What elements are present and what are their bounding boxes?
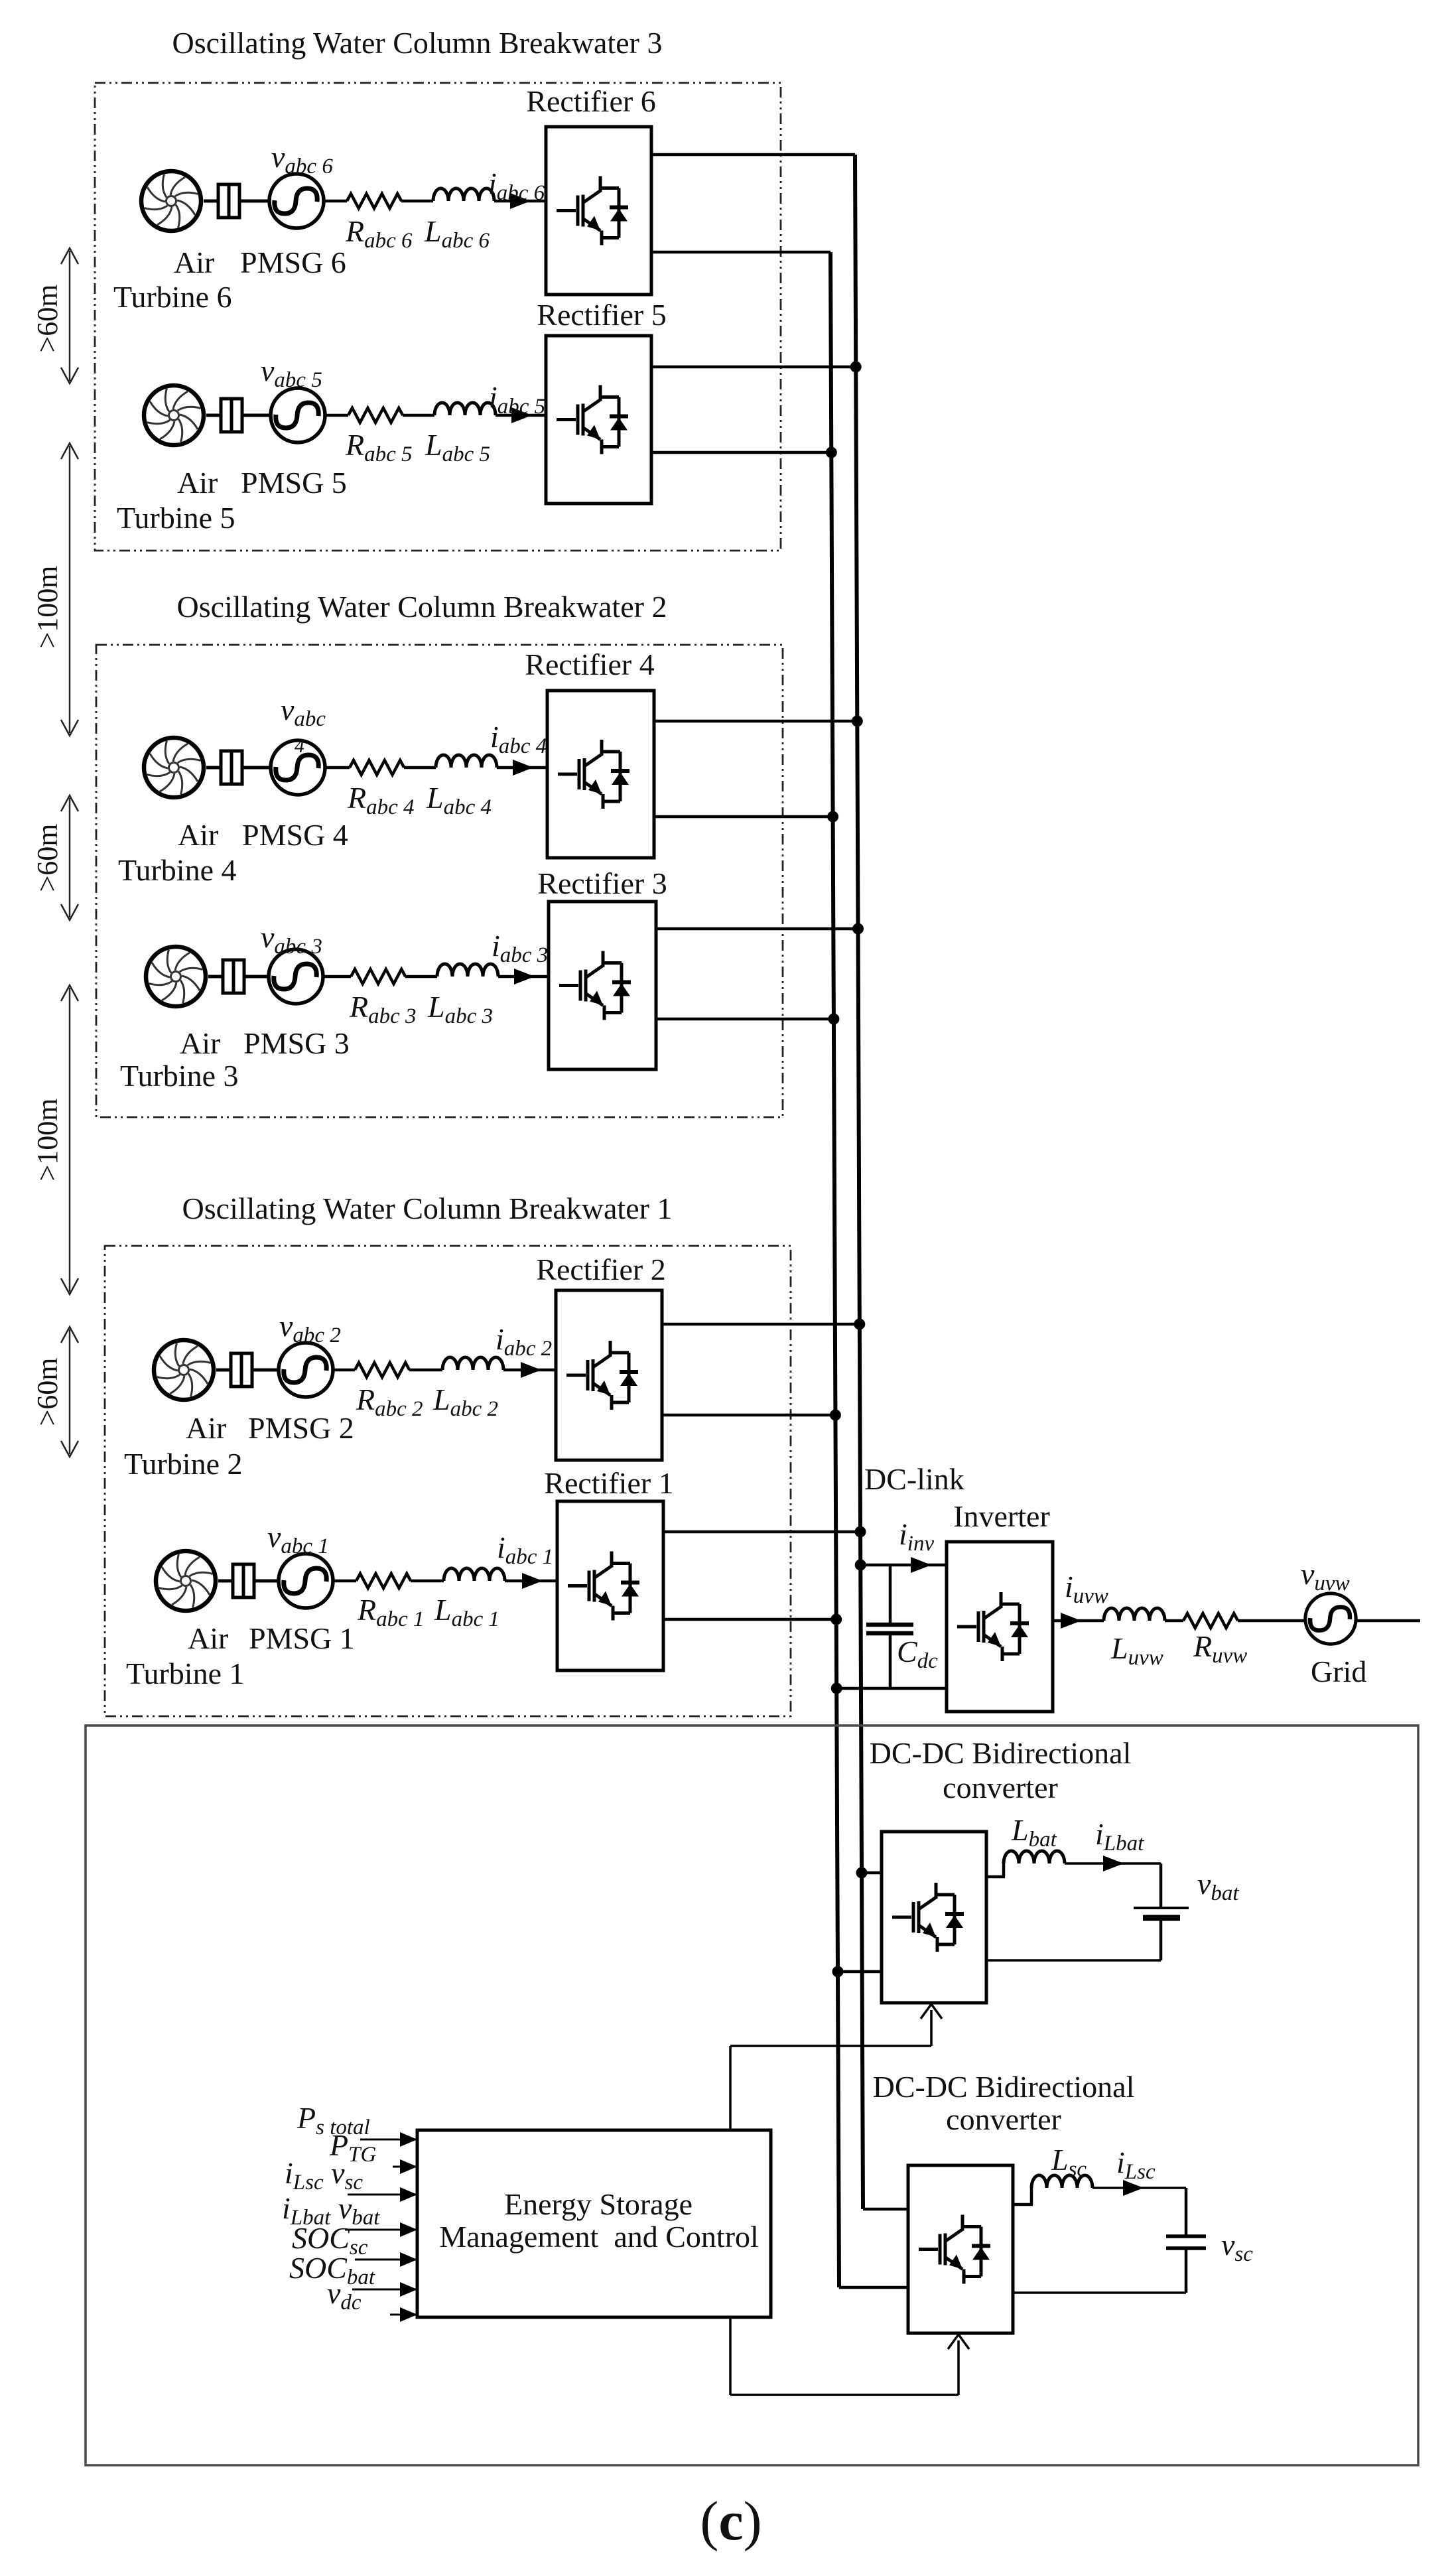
shaft coupling 3 xyxy=(208,960,267,993)
label Rectifier 1 xyxy=(544,1466,673,1500)
svg-text:Energy Storage: Energy Storage xyxy=(504,2187,693,2221)
svg-text:DC-link: DC-link xyxy=(864,1462,964,1496)
Rectifier 5 box xyxy=(546,336,651,504)
label i_abc 3 xyxy=(492,929,548,967)
svg-text:Air: Air xyxy=(177,466,218,500)
IGBT symbol in SC converter xyxy=(919,2215,990,2284)
svg-text:PMSG 4: PMSG 4 xyxy=(242,818,348,852)
air turbine 4 xyxy=(144,738,204,797)
label v_abc 4 xyxy=(281,693,326,757)
PMSG 5 generator xyxy=(271,388,325,442)
label L_bat xyxy=(1011,1813,1057,1852)
inductor L_abc 1 xyxy=(444,1568,505,1581)
label i_abc 4 xyxy=(490,720,547,758)
svg-text:Oscillating Water Column Break: Oscillating Water Column Breakwater 2 xyxy=(177,590,667,624)
Rectifier 4 positive output wire xyxy=(654,720,857,723)
PMSG 2 generator xyxy=(279,1343,333,1397)
Energy Storage Management and Control box xyxy=(417,2130,771,2317)
wire resistor to grid source xyxy=(1238,1619,1305,1623)
distance arrow >100m (lower) xyxy=(31,985,78,1294)
svg-text:Turbine 1: Turbine 1 xyxy=(126,1657,245,1690)
inductor L_uvw xyxy=(1104,1608,1165,1621)
label i_uvw xyxy=(1065,1570,1108,1608)
battery converter positive input wire xyxy=(862,1871,882,1875)
svg-text:Turbine 4: Turbine 4 xyxy=(118,853,237,887)
IGBT symbol in Inverter xyxy=(957,1592,1029,1661)
label Rectifier 3 xyxy=(537,866,667,900)
resistor R_abc 3 xyxy=(351,969,405,984)
label v_bat xyxy=(1197,1867,1239,1905)
distance arrow >60m (middle) xyxy=(31,795,78,920)
label Air Turbine 3 xyxy=(120,1026,239,1093)
wire PMSG to resistor 3 xyxy=(323,975,351,979)
label L_abc 6 xyxy=(424,214,490,253)
inductor L_abc 4 xyxy=(436,755,497,768)
svg-text:Rectifier 5: Rectifier 5 xyxy=(537,298,666,332)
IGBT symbol in battery converter xyxy=(892,1883,964,1952)
control input i_Lsc v_sc xyxy=(285,2156,417,2202)
dashed enclosure: Oscillating Water Column Breakwater 1 xyxy=(105,1246,791,1716)
IGBT symbol in Rectifier 1 xyxy=(568,1552,639,1621)
label R_abc 1 xyxy=(357,1593,425,1631)
DC-link capacitor C_dc xyxy=(866,1565,913,1688)
svg-text:Turbine 6: Turbine 6 xyxy=(113,280,232,314)
air turbine 1 xyxy=(156,1551,216,1611)
air turbine 6 xyxy=(141,171,201,231)
wire with current arrow into rectifier 5 xyxy=(496,407,546,423)
energy storage system enclosure box xyxy=(86,1726,1418,2465)
label Rectifier 2 xyxy=(536,1252,665,1286)
svg-text:PMSG 2: PMSG 2 xyxy=(248,1411,354,1445)
supercapacitor DC-DC converter box xyxy=(908,2165,1013,2333)
wire with current arrow into rectifier 6 xyxy=(494,193,546,209)
junction dot rectifier 5 negative xyxy=(826,447,837,458)
battery DC-DC converter box xyxy=(882,1832,986,2003)
Rectifier 2 positive output wire xyxy=(662,1323,860,1326)
svg-text:PMSG 1: PMSG 1 xyxy=(249,1621,355,1655)
label L_abc 2 xyxy=(432,1383,498,1421)
control input P_TG xyxy=(329,2128,417,2174)
label Rectifier 4 xyxy=(525,647,654,681)
junction dot rectifier 3 positive xyxy=(852,923,864,935)
svg-text:>60m: >60m xyxy=(31,1357,64,1426)
svg-text:Oscillating Water Column Break: Oscillating Water Column Breakwater 3 xyxy=(172,26,663,60)
Rectifier 4 negative output wire xyxy=(654,815,833,819)
battery converter negative input wire xyxy=(838,1970,882,1974)
control signal into SC converter xyxy=(730,2317,969,2395)
dashed enclosure: Oscillating Water Column Breakwater 2 xyxy=(96,645,783,1117)
svg-text:Turbine 3: Turbine 3 xyxy=(120,1059,239,1093)
grid AC source circle xyxy=(1305,1593,1356,1644)
junction dot rectifier 1 positive xyxy=(855,1526,866,1538)
label PMSG 1 xyxy=(249,1621,355,1655)
svg-text:>60m: >60m xyxy=(31,284,64,352)
wire resistor to inductor 5 xyxy=(403,414,434,417)
inductor L_abc 5 xyxy=(434,403,496,415)
shaft coupling 6 xyxy=(204,184,268,218)
distance arrow >60m (bottom) xyxy=(31,1327,78,1457)
svg-text:Air: Air xyxy=(186,1411,226,1445)
label v_abc 1 xyxy=(267,1520,329,1558)
inductor L_bat xyxy=(1004,1851,1065,1863)
inverter output wire with i_uvw arrow xyxy=(1053,1613,1104,1629)
label v_sc xyxy=(1221,2228,1253,2266)
svg-text:>60m: >60m xyxy=(31,823,64,892)
PMSG 6 generator xyxy=(269,174,324,228)
label L_abc 1 xyxy=(434,1593,499,1631)
svg-text:Rectifier 1: Rectifier 1 xyxy=(544,1466,673,1500)
inductor L_abc 6 xyxy=(433,188,494,201)
label Rectifier 6 xyxy=(526,84,655,118)
label v_uvw xyxy=(1301,1557,1350,1595)
label v_abc 2 xyxy=(279,1309,341,1347)
Rectifier 3 box xyxy=(549,902,656,1069)
wire resistor to inductor 3 xyxy=(405,975,437,979)
junction dot battery converter positive input xyxy=(856,1867,868,1879)
IGBT symbol in Rectifier 3 xyxy=(559,951,631,1020)
IGBT symbol in Rectifier 6 xyxy=(557,176,628,245)
caption (c) xyxy=(700,2490,761,2552)
Rectifier 5 negative output wire xyxy=(651,451,831,454)
wire with current arrow into rectifier 3 xyxy=(498,969,549,984)
junction dot battery converter negative input xyxy=(832,1966,844,1978)
svg-text:PMSG 3: PMSG 3 xyxy=(243,1026,350,1060)
distance arrow >100m (upper) xyxy=(31,443,78,736)
positive DC rail to inverter with i_inv arrow xyxy=(860,1557,947,1573)
air turbine 3 xyxy=(146,947,206,1006)
resistor R_abc 5 xyxy=(348,408,403,423)
wire PMSG to resistor 4 xyxy=(325,766,350,770)
label v_abc 3 xyxy=(261,920,322,959)
Rectifier 2 negative output wire xyxy=(662,1414,835,1417)
wire PMSG to resistor 1 xyxy=(333,1580,356,1583)
Rectifier 1 positive output wire xyxy=(663,1530,860,1534)
svg-text:>100m: >100m xyxy=(31,565,64,648)
label PMSG 4 xyxy=(242,818,348,852)
label DC-DC Bidirectional converter (battery) xyxy=(870,1736,1132,1804)
label R_abc 2 xyxy=(356,1383,423,1421)
Rectifier 4 box xyxy=(547,691,654,858)
svg-text:Grid: Grid xyxy=(1311,1655,1366,1688)
wire PMSG to resistor 2 xyxy=(333,1369,355,1372)
label DC-link xyxy=(864,1462,964,1496)
shaft coupling 2 xyxy=(216,1353,277,1387)
Rectifier 2 box xyxy=(556,1290,662,1460)
positive DC bus (outer) xyxy=(855,155,863,2209)
negative DC bus (inner) xyxy=(830,252,839,2287)
control input v_dc xyxy=(327,2276,417,2322)
wire with current arrow into rectifier 4 xyxy=(497,760,547,776)
label i_abc 5 xyxy=(489,380,545,419)
wire resistor to inductor 1 xyxy=(411,1580,444,1583)
svg-text:Rectifier 3: Rectifier 3 xyxy=(537,866,667,900)
junction dot negative rail to inverter xyxy=(831,1683,842,1694)
battery return wire xyxy=(986,1921,1161,1960)
wire resistor to inductor 2 xyxy=(409,1369,442,1372)
IGBT symbol in Rectifier 5 xyxy=(557,385,628,454)
svg-text:Air: Air xyxy=(178,818,218,852)
label L_sc xyxy=(1051,2143,1087,2181)
junction dot rectifier 2 negative xyxy=(830,1410,841,1421)
control input i_Lbat v_bat xyxy=(282,2191,417,2237)
label i_abc 2 xyxy=(496,1322,552,1361)
svg-text:Turbine 2: Turbine 2 xyxy=(124,1447,243,1481)
inductor L_abc 3 xyxy=(437,964,498,977)
inductor L_abc 2 xyxy=(442,1357,503,1370)
svg-text:Rectifier 2: Rectifier 2 xyxy=(536,1252,665,1286)
wire with current arrow into rectifier 2 xyxy=(503,1362,556,1378)
svg-text:DC-DC Bidirectional: DC-DC Bidirectional xyxy=(870,1736,1132,1770)
svg-text:Turbine 5: Turbine 5 xyxy=(117,501,235,535)
junction dot positive rail to inverter xyxy=(855,1560,866,1571)
wire converter to L_sc xyxy=(1013,2188,1033,2204)
wire L_sc to supercap with i_Lsc arrow xyxy=(1092,2180,1186,2236)
Inverter box xyxy=(947,1542,1053,1712)
label PMSG 2 xyxy=(248,1411,354,1445)
junction dot rectifier 4 negative xyxy=(827,811,838,823)
wire PMSG to resistor 6 xyxy=(324,200,347,203)
svg-text:PMSG 5: PMSG 5 xyxy=(241,466,347,500)
label Inverter xyxy=(953,1499,1050,1533)
wire converter to L_bat xyxy=(986,1863,1005,1877)
SC converter negative input elbow xyxy=(839,2286,908,2289)
wire resistor to inductor 6 xyxy=(401,200,433,203)
label Air Turbine 1 xyxy=(126,1621,245,1690)
label Energy Storage Management and Control xyxy=(439,2187,759,2254)
PMSG 1 generator xyxy=(279,1554,333,1608)
distance arrow >60m (top) xyxy=(31,248,78,383)
label R_abc 4 xyxy=(347,781,415,819)
label L_abc 5 xyxy=(425,428,490,466)
svg-text:DC-DC Bidirectional: DC-DC Bidirectional xyxy=(873,2070,1135,2104)
label Grid xyxy=(1311,1655,1366,1688)
Rectifier 6 box xyxy=(546,127,651,295)
wire inductor to resistor (grid) xyxy=(1165,1619,1183,1623)
PMSG 3 generator xyxy=(269,949,323,1004)
negative DC rail to inverter xyxy=(836,1687,947,1690)
resistor R_abc 6 xyxy=(347,194,401,208)
shaft coupling 5 xyxy=(206,399,269,432)
label i_inv xyxy=(899,1517,934,1556)
label R_abc 5 xyxy=(345,428,413,466)
supercapacitor symbol v_sc xyxy=(1166,2236,1206,2248)
svg-text:(c): (c) xyxy=(700,2490,761,2552)
label PMSG 5 xyxy=(241,466,347,500)
svg-text:converter: converter xyxy=(946,2102,1061,2136)
label v_abc 6 xyxy=(271,140,333,178)
Rectifier 5 positive output wire xyxy=(651,366,856,369)
label C_dc xyxy=(897,1635,938,1673)
label R_abc 3 xyxy=(349,990,417,1028)
control input SOC_bat xyxy=(289,2251,417,2297)
svg-text:Rectifier 4: Rectifier 4 xyxy=(525,647,654,681)
svg-text:Air: Air xyxy=(188,1621,228,1655)
resistor R_uvw xyxy=(1183,1613,1238,1628)
control input P_s-total xyxy=(297,2101,417,2147)
label i_Lsc xyxy=(1116,2145,1156,2184)
junction dot rectifier 3 negative xyxy=(828,1014,839,1025)
label L_uvw xyxy=(1110,1631,1163,1670)
IGBT symbol in Rectifier 2 xyxy=(566,1341,638,1410)
inductor L_sc xyxy=(1031,2175,1092,2188)
SC converter positive input elbow xyxy=(863,2208,908,2211)
shaft coupling 1 xyxy=(218,1564,277,1597)
air turbine 5 xyxy=(144,385,204,445)
supercap return wire xyxy=(1013,2248,1186,2293)
svg-text:>100m: >100m xyxy=(31,1098,64,1181)
label Air Turbine 6 xyxy=(113,245,232,314)
svg-text:converter: converter xyxy=(943,1771,1058,1804)
svg-text:Inverter: Inverter xyxy=(953,1499,1050,1533)
control input SOC_sc xyxy=(292,2221,417,2267)
PMSG 4 generator xyxy=(271,740,325,795)
label i_Lbat xyxy=(1095,1817,1144,1856)
Rectifier 3 negative output wire xyxy=(656,1018,834,1021)
label R_uvw xyxy=(1193,1629,1247,1668)
IGBT symbol in Rectifier 4 xyxy=(558,740,629,809)
svg-text:PMSG 6: PMSG 6 xyxy=(240,245,346,279)
label PMSG 3 xyxy=(243,1026,350,1060)
label Air Turbine 4 xyxy=(118,818,237,887)
wire resistor to inductor 4 xyxy=(404,766,436,770)
Rectifier 1 negative output wire xyxy=(663,1618,836,1621)
label i_abc 6 xyxy=(488,167,545,205)
label Air Turbine 2 xyxy=(124,1411,243,1481)
wire with current arrow into rectifier 1 xyxy=(505,1573,557,1589)
label L_abc 3 xyxy=(427,990,493,1028)
svg-text:Air: Air xyxy=(180,1026,220,1060)
battery symbol v_bat xyxy=(1134,1908,1189,1918)
resistor R_abc 4 xyxy=(350,760,404,775)
svg-text:Air: Air xyxy=(174,245,214,279)
Rectifier 6 positive output wire xyxy=(651,153,855,157)
label DC-DC Bidirectional converter (supercapacitor) xyxy=(873,2070,1135,2136)
Rectifier 1 box xyxy=(557,1501,663,1670)
svg-text:4: 4 xyxy=(295,735,304,757)
Rectifier 6 negative output wire xyxy=(651,251,830,254)
svg-text:Rectifier 6: Rectifier 6 xyxy=(526,84,655,118)
label i_abc 1 xyxy=(497,1530,553,1569)
junction dot rectifier 4 positive xyxy=(852,716,863,727)
label R_abc 6 xyxy=(345,214,413,253)
wire grid to edge xyxy=(1356,1619,1420,1623)
svg-text:Management and Control: Management and Control xyxy=(439,2220,759,2254)
label PMSG 6 xyxy=(240,245,346,279)
resistor R_abc 1 xyxy=(356,1574,411,1588)
Rectifier 3 positive output wire xyxy=(656,927,858,931)
label L_abc 4 xyxy=(426,781,492,819)
junction dot rectifier 1 negative xyxy=(830,1614,842,1625)
label Air Turbine 5 xyxy=(117,466,235,535)
air turbine 2 xyxy=(154,1340,214,1400)
wire L_bat to battery with i_Lbat arrow xyxy=(1065,1856,1161,1908)
control signal into battery converter xyxy=(730,2004,942,2130)
label v_abc 5 xyxy=(261,354,322,392)
junction dot rectifier 2 positive xyxy=(854,1319,865,1330)
svg-text:Oscillating Water Column Break: Oscillating Water Column Breakwater 1 xyxy=(182,1191,673,1225)
wire PMSG to resistor 5 xyxy=(325,414,348,417)
dashed enclosure: Oscillating Water Column Breakwater 3 xyxy=(95,83,781,551)
resistor R_abc 2 xyxy=(355,1363,409,1377)
junction dot rectifier 5 positive xyxy=(850,362,862,373)
shaft coupling 4 xyxy=(206,751,269,784)
label Rectifier 5 xyxy=(537,298,666,332)
